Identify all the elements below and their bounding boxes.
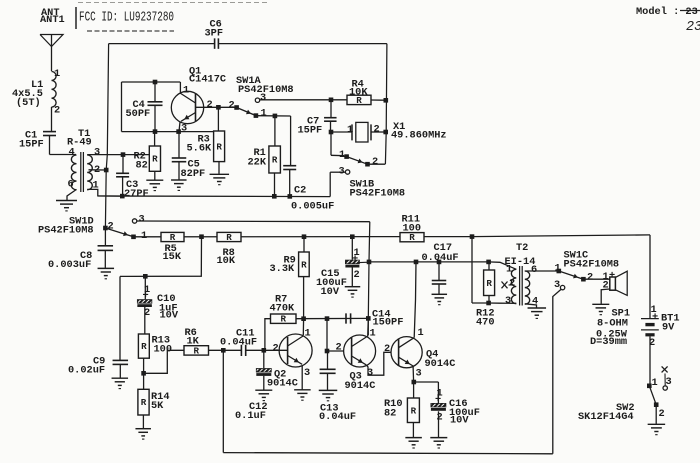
- svg-text:Model : 23: Model : 23: [636, 6, 698, 18]
- svg-text:3.3K: 3.3K: [270, 263, 296, 275]
- svg-text:PS42F10M8: PS42F10M8: [564, 258, 620, 270]
- svg-text:15K: 15K: [163, 251, 182, 263]
- svg-text:3: 3: [505, 295, 511, 307]
- svg-text:1: 1: [261, 107, 267, 119]
- svg-text:10V: 10V: [321, 286, 340, 298]
- svg-text:9014C: 9014C: [345, 380, 376, 392]
- svg-text:10K: 10K: [349, 86, 368, 98]
- svg-text:2: 2: [437, 411, 443, 423]
- svg-text:1: 1: [339, 149, 345, 161]
- svg-text:2: 2: [587, 271, 593, 283]
- svg-text:5.6K: 5.6K: [187, 142, 213, 154]
- svg-text:R: R: [226, 232, 232, 243]
- svg-text:3: 3: [94, 146, 100, 158]
- svg-text:2: 2: [273, 342, 279, 354]
- svg-text:+: +: [609, 270, 615, 282]
- svg-text:R: R: [141, 341, 147, 352]
- svg-text:0.04uF: 0.04uF: [220, 336, 257, 348]
- svg-text:150PF: 150PF: [373, 316, 404, 328]
- svg-text:3: 3: [304, 367, 310, 379]
- svg-text:1: 1: [370, 327, 376, 339]
- svg-text:0.003uF: 0.003uF: [48, 259, 91, 271]
- svg-text:0.04uF: 0.04uF: [422, 252, 459, 264]
- svg-text:3: 3: [416, 367, 422, 379]
- svg-text:R: R: [193, 345, 199, 356]
- svg-text:3: 3: [554, 279, 560, 291]
- svg-text:PS42F10M8: PS42F10M8: [38, 224, 94, 236]
- svg-text:82: 82: [136, 159, 148, 171]
- svg-text:R: R: [141, 397, 147, 408]
- svg-text:D=39mm: D=39mm: [590, 336, 627, 348]
- svg-text:2: 2: [384, 343, 390, 355]
- svg-text:1: 1: [54, 68, 60, 80]
- svg-text:2: 2: [372, 156, 378, 168]
- svg-text:3: 3: [666, 376, 672, 388]
- svg-text:9014C: 9014C: [425, 358, 456, 370]
- svg-text:C2: C2: [294, 184, 306, 196]
- svg-text:27PF: 27PF: [124, 188, 149, 200]
- svg-text:82: 82: [384, 407, 396, 419]
- svg-text:6: 6: [531, 264, 537, 276]
- svg-text:1: 1: [141, 230, 147, 242]
- svg-text:100: 100: [154, 343, 173, 355]
- svg-text:R: R: [280, 314, 286, 325]
- svg-text:1: 1: [652, 377, 658, 389]
- svg-text:FCC ID: LU9237280: FCC ID: LU9237280: [79, 10, 174, 26]
- svg-text:4: 4: [532, 295, 538, 307]
- svg-text:15PF: 15PF: [19, 138, 44, 150]
- svg-text:470K: 470K: [270, 302, 296, 314]
- svg-text:1: 1: [305, 327, 311, 339]
- svg-text:R: R: [216, 141, 222, 152]
- svg-text:2: 2: [207, 99, 213, 111]
- svg-text:1: 1: [347, 124, 353, 136]
- svg-text:R: R: [272, 155, 278, 166]
- svg-text:470: 470: [476, 316, 495, 328]
- svg-text:3: 3: [139, 213, 145, 225]
- svg-text:10K: 10K: [217, 255, 236, 267]
- svg-text:49.860MHz: 49.860MHz: [391, 129, 447, 141]
- svg-text:9V: 9V: [662, 321, 675, 333]
- svg-text:0.1uF: 0.1uF: [235, 410, 266, 422]
- svg-text:ANT1: ANT1: [40, 14, 65, 26]
- svg-text:0.04uF: 0.04uF: [319, 411, 356, 423]
- svg-text:2: 2: [229, 99, 235, 111]
- svg-text:2: 2: [336, 341, 342, 353]
- svg-text:100: 100: [403, 222, 422, 234]
- svg-text:23: 23: [686, 20, 700, 35]
- svg-text:4: 4: [69, 146, 75, 158]
- svg-text:R: R: [170, 232, 176, 243]
- svg-text:+: +: [652, 311, 658, 323]
- svg-text:2: 2: [374, 123, 380, 135]
- svg-text:R: R: [486, 278, 492, 289]
- svg-text:(5T): (5T): [16, 97, 41, 109]
- svg-text:50PF: 50PF: [126, 108, 151, 120]
- svg-text:0.02uF: 0.02uF: [68, 364, 105, 376]
- svg-text:3: 3: [181, 122, 187, 134]
- svg-text:1: 1: [418, 327, 424, 339]
- svg-text:3PF: 3PF: [205, 27, 224, 39]
- svg-text:R: R: [152, 154, 158, 165]
- svg-text:10V: 10V: [450, 414, 469, 426]
- svg-text:9014C: 9014C: [267, 377, 298, 389]
- svg-text:2: 2: [659, 408, 665, 420]
- svg-text:R: R: [411, 405, 417, 416]
- svg-text:22K: 22K: [248, 156, 267, 168]
- svg-text:3: 3: [339, 165, 345, 177]
- svg-text:5K: 5K: [151, 400, 164, 412]
- svg-text:C1417C: C1417C: [189, 73, 226, 85]
- svg-text:10V: 10V: [160, 309, 179, 321]
- svg-text:0.005uF: 0.005uF: [291, 200, 334, 212]
- svg-text:15PF: 15PF: [298, 124, 323, 136]
- svg-text:82PF: 82PF: [181, 168, 206, 180]
- svg-text:1: 1: [183, 84, 189, 96]
- svg-text:T2: T2: [516, 242, 528, 254]
- svg-text:R: R: [301, 259, 307, 270]
- svg-text:2: 2: [354, 269, 360, 281]
- svg-text:3: 3: [260, 92, 266, 104]
- svg-text:SK12F14G4: SK12F14G4: [578, 411, 634, 423]
- svg-text:PS42F10M8: PS42F10M8: [350, 187, 406, 199]
